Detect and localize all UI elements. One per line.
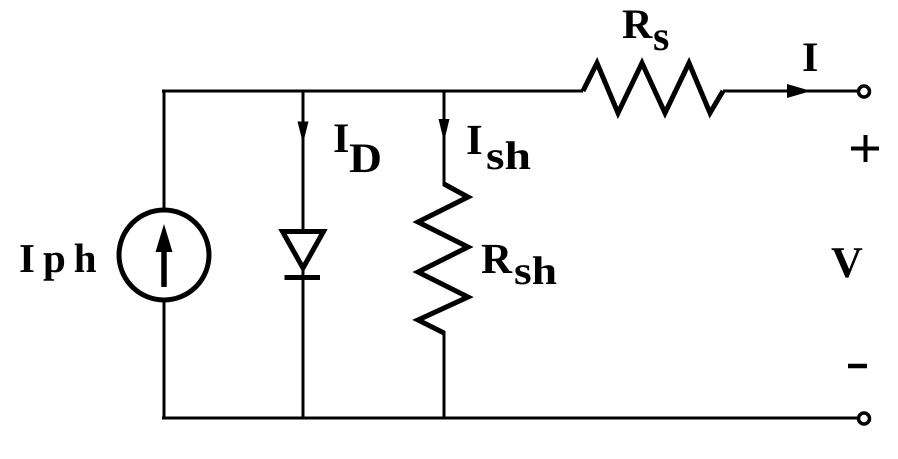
svg-text:I: I bbox=[802, 35, 818, 81]
svg-text:sh: sh bbox=[514, 248, 557, 293]
svg-text:D: D bbox=[349, 136, 382, 182]
svg-text:R: R bbox=[622, 2, 653, 48]
svg-text:sh: sh bbox=[486, 133, 531, 178]
svg-text:Iph: Iph bbox=[19, 235, 105, 281]
svg-text:V: V bbox=[831, 238, 863, 287]
svg-text:I: I bbox=[333, 116, 349, 162]
svg-text:s: s bbox=[653, 14, 669, 60]
svg-text:R: R bbox=[481, 236, 513, 283]
svg-text:I: I bbox=[466, 117, 483, 164]
